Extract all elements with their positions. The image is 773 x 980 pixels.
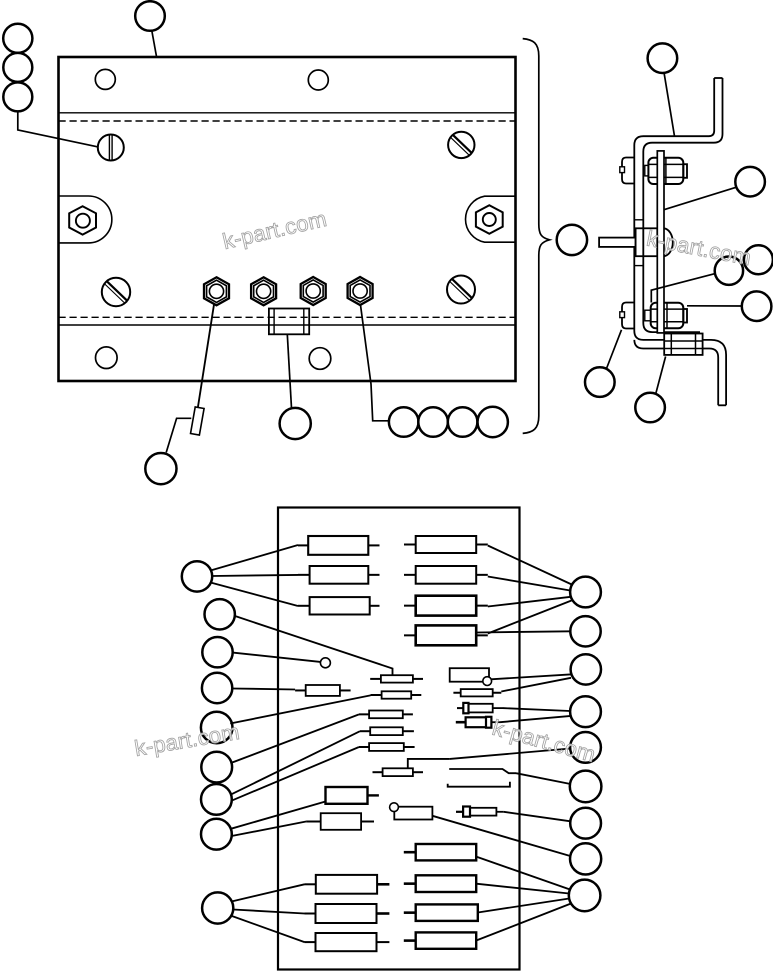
leader R2 to fuse R4 <box>477 631 571 632</box>
clip below panel <box>191 407 205 435</box>
hex bolt right <box>476 205 503 233</box>
leader L5 to fuse F2 <box>230 695 370 723</box>
leader hub L9 to row3 <box>231 916 305 943</box>
leader hub R9 to row1 <box>476 857 570 890</box>
callout circle top <box>135 1 165 31</box>
watermark 2 <box>645 226 754 271</box>
leader hub L9 to row1 <box>232 884 305 901</box>
leader R1 hub to fuse R4 <box>488 601 572 634</box>
callout row circle 1 <box>389 407 419 437</box>
leader hub R9 to row3 <box>478 899 569 913</box>
fuse F4 <box>360 727 414 735</box>
callout L9 hub <box>202 892 233 923</box>
leader hub R9 to row2 <box>476 884 569 894</box>
callout L8 <box>201 819 232 850</box>
watermark 3 <box>133 719 242 761</box>
callout R1 hub <box>570 577 601 608</box>
screw top-right <box>448 132 474 158</box>
leader washer <box>687 305 742 307</box>
bracket top bolt head <box>620 158 635 184</box>
fuse C thick-end <box>457 703 503 713</box>
bracket top bolt nut <box>648 158 683 184</box>
fuse holder on panel <box>269 309 309 335</box>
callout circle bracket top <box>648 43 678 73</box>
leader fuse holder down <box>287 334 291 408</box>
leader R5 to connector F6 <box>450 749 571 759</box>
leader nut1 to clip <box>198 305 214 408</box>
hole top-right <box>308 70 328 90</box>
screw bottom-right <box>447 276 475 304</box>
panel top inner line <box>59 112 516 114</box>
callout L1 hub <box>182 561 212 591</box>
callout circle fuse holder <box>280 408 311 439</box>
fuse L row1 <box>305 875 390 894</box>
callout R8 <box>570 843 601 874</box>
leader R7 to fuse E <box>504 812 571 822</box>
fuse F1 <box>370 675 423 682</box>
nut 1 <box>204 277 229 305</box>
leader nut4 down <box>361 305 390 421</box>
callout row circle 2 <box>418 407 448 437</box>
callout L4 <box>202 673 232 703</box>
fuse L2 <box>298 566 380 584</box>
leader R1 hub to fuse R3 <box>488 597 571 607</box>
relay with circle left <box>390 803 433 820</box>
fuse R2 <box>404 566 488 584</box>
leader clip to callout <box>166 418 191 452</box>
leader R3 to relay circle <box>491 674 572 679</box>
leader L6 to fuse F3 <box>232 714 360 762</box>
hole bottom-right <box>309 348 331 370</box>
nut 2 <box>251 277 276 305</box>
bracket bottom bolt nut <box>651 303 684 329</box>
fuse F5 <box>359 743 415 751</box>
relay thick left-mid <box>326 787 379 804</box>
fuse R row1 <box>404 844 476 860</box>
fuse R1 <box>404 536 488 553</box>
screw top-left <box>98 135 124 161</box>
fuse F6 <box>373 768 424 776</box>
bracket lower sheet <box>634 340 726 405</box>
callout row circle 3 <box>448 407 478 437</box>
left mounting tab <box>59 196 112 243</box>
leader hub R9 to row4 <box>476 904 571 941</box>
fuse R row2 <box>404 875 476 892</box>
fuse E thick-end <box>456 807 504 817</box>
callout L2 <box>205 599 235 629</box>
fuse L1 <box>298 536 380 555</box>
callout R5 <box>570 732 601 763</box>
leader L4 to fuse A <box>232 689 295 690</box>
thin plate <box>657 151 664 333</box>
plate tick lower <box>634 265 643 267</box>
fuse L row3 <box>305 933 390 951</box>
fuse R3 <box>404 596 488 616</box>
leader bracket top <box>664 74 674 136</box>
fuse G <box>306 813 374 830</box>
fuse B <box>453 689 501 696</box>
leader L7 to fuse F4 <box>231 731 360 794</box>
stud dome <box>664 228 673 256</box>
leader stud pair <box>651 274 714 303</box>
leader bottom screw <box>607 330 622 369</box>
leader hub L9 to row2 <box>233 910 305 914</box>
fuse F2 <box>371 691 422 698</box>
callout L7 <box>201 784 232 815</box>
mounting panel outline <box>59 57 516 381</box>
leader L8 to fuse G <box>232 822 307 837</box>
leader R4 to fuse D <box>500 716 571 722</box>
leader plate <box>664 187 736 209</box>
hole bottom-left <box>96 347 118 369</box>
hole top-left <box>95 69 115 89</box>
fuse L row2 <box>305 904 390 923</box>
bracket top bolt washer <box>683 164 687 178</box>
leader L8 to relay <box>231 802 325 829</box>
leader L3 to terminal circle <box>233 653 321 662</box>
plate tick upper <box>634 219 643 221</box>
callout circle stud pair B <box>744 245 773 274</box>
panel bottom inner line <box>59 324 516 326</box>
leader R1 hub to fuse R2 <box>488 577 570 591</box>
callout circle stack 2 <box>3 53 32 82</box>
callout circle stack 3 <box>3 82 32 111</box>
bracket bottom bolt head <box>620 303 635 329</box>
fuse F3 <box>359 711 413 719</box>
stud flange block <box>636 228 658 256</box>
connector bend F6 <box>408 759 450 768</box>
hex bolt left <box>69 206 96 234</box>
fuse R row3 <box>404 904 478 921</box>
bracket main strip <box>634 78 726 405</box>
leader R4 to fuse C <box>503 708 571 711</box>
callout circle clip <box>145 453 176 484</box>
callout circle brace <box>557 225 587 255</box>
fuse A <box>295 685 351 696</box>
relay with circle right <box>450 668 492 685</box>
callout circle washer <box>742 291 772 321</box>
leader clamp <box>656 357 666 393</box>
clamp block lower <box>664 334 702 355</box>
leader from circle stack to screw <box>18 112 98 147</box>
callout R6 <box>570 771 602 803</box>
right mounting tab <box>466 196 516 242</box>
callout L3 <box>202 637 232 667</box>
callout circle bottom screw <box>585 367 615 397</box>
callout L5 <box>201 712 233 744</box>
leader R1 hub to fuse R1 <box>488 546 573 586</box>
watermark 4 <box>490 715 599 767</box>
fuse L3 <box>298 597 380 614</box>
leader L2 to fuse F1 <box>234 616 392 675</box>
callout circle plate <box>735 167 765 197</box>
leader top callout <box>152 31 157 57</box>
small terminal circle <box>320 658 330 668</box>
bus bar <box>448 769 516 787</box>
leader R8 to relay circle left <box>432 816 570 856</box>
leader L7 to fuse F5 <box>231 747 359 801</box>
fuse R4 <box>404 625 488 645</box>
fuse D thick-end <box>456 717 500 728</box>
nut 4 <box>348 277 373 305</box>
fuse box outline <box>278 508 520 970</box>
callout L6 <box>201 752 232 783</box>
callout circle stud pair A <box>715 257 743 285</box>
leader hub L1 to fuse L3 <box>211 583 299 607</box>
panel bottom dashed line <box>59 316 516 318</box>
curly brace <box>523 39 550 434</box>
callout circle stack 1 <box>3 24 32 53</box>
callout R4 <box>570 696 601 727</box>
callout R9 hub <box>569 880 601 912</box>
leader R6 to bus bar <box>516 773 571 784</box>
screw bottom-left <box>102 278 130 306</box>
leader hub L1 to fuse L1 <box>211 545 299 571</box>
mounting stud <box>599 238 636 247</box>
callout R3 <box>571 654 601 684</box>
nut 3 <box>301 277 326 305</box>
bracket top bolt shank <box>645 165 649 176</box>
callout row circle 4 <box>478 407 508 437</box>
callout circle clamp <box>635 393 665 423</box>
callout R7 <box>570 808 601 839</box>
leader hub L1 to fuse L2 <box>212 575 298 576</box>
panel top dashed line <box>59 120 516 122</box>
watermark 1 <box>220 206 329 254</box>
callout R2 <box>570 616 600 646</box>
bracket bottom bolt washer <box>683 309 687 323</box>
fuse R row4 <box>404 932 476 948</box>
bracket bottom bolt shank <box>645 310 651 321</box>
leader R3 to fuse B <box>501 678 571 692</box>
